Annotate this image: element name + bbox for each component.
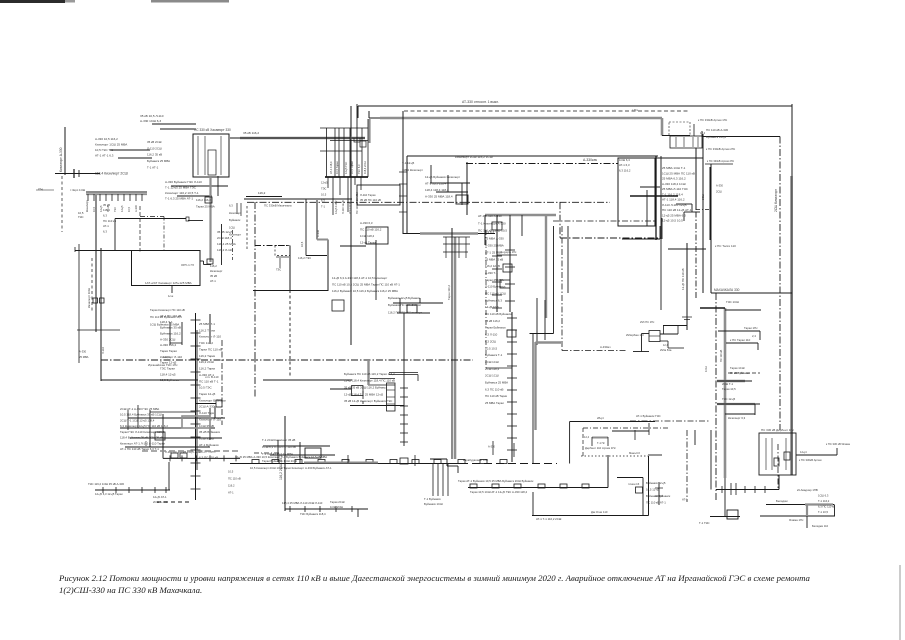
station box Zubutli (357, 185, 400, 205)
svg-text:Тарки ПС 110 кВ: Тарки ПС 110 кВ (199, 347, 222, 351)
svg-text:2,4: 2,4 (752, 334, 756, 338)
svg-text:Кизилюрт А-330: Кизилюрт А-330 (59, 147, 63, 172)
ladder box Khunzakh (387, 383, 396, 411)
wire chain H y509 (285, 508, 368, 510)
svg-text:10,5 ГЭС: 10,5 ГЭС (199, 386, 212, 390)
svg-text:т.Чирп 1СШ: т.Чирп 1СШ (70, 188, 86, 192)
svg-text:6,3 ПС 110 кВ: 6,3 ПС 110 кВ (485, 387, 503, 391)
svg-text:к ПС 330кВ Артем 2Пс: к ПС 330кВ Артем 2Пс (707, 159, 735, 163)
svg-text:ГЭС: ГЭС (113, 207, 117, 212)
wire branch H y308 (700, 307, 725, 309)
wire V x807 drop (806, 516, 808, 528)
wire gray H y431 (612, 430, 649, 432)
svg-text:10,5 Кизилюрт 2СШ 1СШ Тарки Ки: 10,5 Кизилюрт 2СШ 1СШ Тарки Кизилюрт А-3… (250, 466, 332, 470)
svg-text:А-330 118,4 1СШ: А-330 118,4 1СШ (662, 182, 686, 186)
wire corner V x662 gray (661, 118, 664, 136)
svg-text:35 кВ ПС 110 кВ: 35 кВ ПС 110 кВ (360, 198, 381, 202)
wire dash H y216 (140, 216, 164, 218)
svg-text:118,4 25 МВА: 118,4 25 МВА (217, 242, 236, 246)
wire gray overlay y504 (805, 503, 833, 505)
svg-text:25 МВА Тарки: 25 МВА Тарки (485, 401, 504, 405)
svg-text:37+j: 37+j (38, 187, 43, 191)
svg-text:ПС 110 кВ: ПС 110 кВ (719, 350, 723, 362)
svg-text:12+j5 10,5: 12+j5 10,5 (485, 305, 499, 309)
chain ticks x510 (507, 317, 517, 319)
junction small box AT (207, 259, 213, 264)
cluster Gunib wires (370, 378, 395, 380)
wire V x255 dash-dot long (254, 202, 256, 398)
wire H y403 gotsatl (196, 403, 216, 405)
comb under chain x433 (432, 464, 434, 496)
bus ticks below y192 (87, 194, 89, 201)
svg-text:1СШ 6,3 Л-110 ПС 110 кВ: 1СШ 6,3 Л-110 ПС 110 кВ (262, 445, 296, 449)
svg-text:Кизилюрт Л-110: Кизилюрт Л-110 (160, 355, 182, 359)
chain ticks x497 (492, 255, 502, 257)
svg-text:6,3 ПС 110 кВ: 6,3 ПС 110 кВ (199, 456, 218, 460)
svg-text:к ПС 330кВ Артем: к ПС 330кВ Артем (799, 458, 822, 462)
svg-text:2СШ Кизилюрт: 2СШ Кизилюрт (774, 189, 778, 212)
svg-text:Тарки Кизилюрт ПС 110 кВ: Тарки Кизилюрт ПС 110 кВ (150, 308, 185, 312)
wire H y380 left (101, 379, 198, 381)
wire gray dash H y451 (142, 450, 238, 452)
svg-text:А-330 Буйнакск ГЭС Л-110: А-330 Буйнакск ГЭС Л-110 (165, 180, 202, 184)
svg-text:Белиджи 110: Белиджи 110 (812, 524, 829, 528)
svg-text:Т-1 12+j5: Т-1 12+j5 (402, 161, 415, 165)
wire dash V x164 (163, 217, 165, 252)
svg-text:ПС 330кВ Махачкала: ПС 330кВ Махачкала (264, 204, 292, 208)
svg-text:АТ-1 Т-1 116,2 2СШ: АТ-1 Т-1 116,2 2СШ (536, 517, 562, 521)
wire trunk chain y463 (230, 463, 460, 465)
svg-text:А-330 10,5 116,2: А-330 10,5 116,2 (95, 137, 118, 141)
svg-text:АТ-1: АТ-1 (103, 224, 109, 228)
wire H y455 to Yalama (796, 454, 837, 456)
wire chain H y487 (468, 487, 608, 489)
svg-text:Изба 81а: Изба 81а (660, 348, 672, 352)
tiny box pair y298 (93, 298, 98, 303)
wire H y158 link (656, 157, 703, 159)
svg-text:12+j5 118,4 Кизилюрт 118,4 ПС: 12+j5 118,4 Кизилюрт 118,4 ПС 110 кВ (344, 379, 395, 383)
wire V x467 (466, 162, 468, 215)
wire branch y414 (725, 413, 755, 415)
wire V x608 up to box (607, 455, 609, 488)
svg-text:10,5 10,5: 10,5 10,5 (485, 346, 497, 350)
svg-text:А-330 1СШ 6,3: А-330 1СШ 6,3 (140, 119, 161, 123)
drops below bus (327, 177, 329, 188)
svg-text:А-330: А-330 (716, 184, 723, 188)
svg-text:ПС 110 кВ Буйнакск: ПС 110 кВ Буйнакск (485, 312, 512, 316)
wire gray V x807 (806, 505, 808, 517)
bus y177 GES (325, 176, 368, 178)
svg-text:35 кВ 10,5 Л-110: 35 кВ 10,5 Л-110 (140, 114, 164, 118)
bus bar y192 Khasavyurt (86, 191, 147, 193)
svg-text:АТ-1 25 МВА: АТ-1 25 МВА (485, 250, 502, 254)
svg-text:Т-1 116,2: Т-1 116,2 (818, 499, 830, 503)
svg-text:2СШ 1СШ: 2СШ 1СШ (485, 360, 499, 364)
svg-text:Буйнакск 25 МВА: Буйнакск 25 МВА (485, 381, 508, 385)
svg-text:1СШ 25 МВА ПС 110 кВ: 1СШ 25 МВА ПС 110 кВ (662, 171, 695, 175)
svg-text:АТ-1: АТ-1 (210, 279, 216, 283)
svg-text:ПС 110 кВ 116,2: ПС 110 кВ 116,2 (360, 227, 382, 231)
label artem 2ps arrow (705, 163, 733, 165)
svg-text:АТ-1 Буйнакск: АТ-1 Буйнакск (199, 443, 219, 447)
svg-text:Л-110 Л-110 12+j5: Л-110 Л-110 12+j5 (662, 203, 687, 207)
svg-text:12+j5 ПС 110 кВ: 12+j5 ПС 110 кВ (681, 268, 685, 290)
svg-text:к ПС 330кВ Артем 2Пс: к ПС 330кВ Артем 2Пс (706, 147, 736, 151)
svg-text:к ПС Тарки 110: к ПС Тарки 110 (730, 338, 751, 342)
svg-text:Тарки 12+j5: Тарки 12+j5 (199, 392, 216, 396)
small box x635 y487 (636, 487, 643, 493)
svg-text:35 кВ 35 кВ 2СШ 116,2 Буйнакск: 35 кВ 35 кВ 2СШ 116,2 Буйнакск (344, 386, 388, 390)
svg-text:118,4 2СШ: 118,4 2СШ (363, 161, 367, 174)
small box x332 y300 (332, 300, 344, 311)
svg-text:35 кВ: 35 кВ (210, 274, 217, 278)
svg-text:Т-1 Буйнакск: Т-1 Буйнакск (424, 497, 441, 501)
svg-text:Тарки АТ-1 Буйнакск 10,5 25 МВ: Тарки АТ-1 Буйнакск 10,5 25 МВА Буйнакск… (458, 479, 534, 483)
svg-text:Кизилюрт 6,3: Кизилюрт 6,3 (728, 416, 746, 420)
cluster left column x230-248 (236, 203, 238, 214)
svg-text:Буйнакск ПС 110 кВ 2СШ: Буйнакск ПС 110 кВ 2СШ (388, 303, 421, 307)
cluster Irganay gray box (182, 416, 210, 428)
wire V x662 mid (661, 218, 663, 239)
wire V x101 long (100, 248, 102, 381)
svg-text:Кизилюрт 1СШ: Кизилюрт 1СШ (87, 288, 91, 308)
wire V x407 (406, 156, 408, 234)
chain x404 lower (403, 313, 405, 446)
wire V x569 derbent (569, 422, 571, 464)
svg-text:Кизилюрт 1СШ 116,2 1СШ: Кизилюрт 1СШ 116,2 1СШ (455, 155, 493, 159)
chain node bumps y463 (252, 460, 259, 464)
svg-text:А-330 АТ-1: А-330 АТ-1 (199, 373, 214, 377)
chain V x512 lower (511, 312, 513, 462)
svg-text:Тарки 116,2: Тарки 116,2 (447, 285, 451, 300)
svg-text:12+j5 Буйнакск Кизилюрт: 12+j5 Буйнакск Кизилюрт (425, 175, 461, 179)
wire V x711 (710, 164, 712, 293)
svg-text:1СШ: 1СШ (704, 366, 708, 372)
wire jog V x560 dash-dot (559, 202, 561, 238)
wire dash-dot V x562 (561, 226, 563, 351)
wire branch H y293 (711, 292, 792, 294)
svg-text:ГЭС Буйнакск 118,4: ГЭС Буйнакск 118,4 (300, 512, 326, 516)
svg-text:6,3: 6,3 (103, 229, 107, 233)
wire H y380 right part (263, 379, 352, 381)
svg-text:118,4 Кизилюрт 2СШ: 118,4 Кизилюрт 2СШ (95, 171, 128, 175)
wire V x79 (78, 244, 80, 363)
svg-text:Кизилюрт: Кизилюрт (210, 269, 223, 273)
svg-text:ГЭС 1СШ: ГЭС 1СШ (726, 300, 739, 304)
svg-text:Буйнакск 12+j5: Буйнакск 12+j5 (706, 135, 726, 139)
svg-text:Т-1 АТ-1: Т-1 АТ-1 (147, 166, 159, 170)
svg-text:2СШ А-330: 2СШ А-330 (153, 500, 168, 504)
wire V x163 up (162, 442, 164, 458)
svg-text:Кизилюрт 1СШ 25 МВА: Кизилюрт 1СШ 25 МВА (95, 143, 127, 147)
wire trunk H y118 (369, 117, 662, 119)
svg-text:6,3 Кизилюрт 12+j5 ПС 110 кВ 1: 6,3 Кизилюрт 12+j5 ПС 110 кВ 116,2 (120, 424, 168, 428)
svg-text:10,5 Тарки: 10,5 Тарки (350, 161, 354, 174)
svg-text:116,2 2СШ: 116,2 2СШ (199, 360, 214, 364)
small box x492 y222 (492, 222, 502, 230)
svg-text:10,5 118,4 Буйнакск 35 кВ 1СШ: 10,5 118,4 Буйнакск 35 кВ 1СШ (120, 413, 162, 417)
wire trunk H y233 gray overlay (420, 232, 478, 235)
svg-text:1АТ+2АТ Хасавюрт 125+125 МВА: 1АТ+2АТ Хасавюрт 125+125 МВА (145, 281, 192, 285)
svg-text:25 МВА А-330: 25 МВА А-330 (485, 237, 504, 241)
transformer block box 1AT-2AT (132, 251, 201, 286)
wire H y135 chiryurt (662, 135, 690, 137)
cluster Artem wires (430, 182, 470, 184)
svg-text:118,4 25 МВА Л-110 2СШ Л-110: 118,4 25 МВА Л-110 2СШ Л-110 (282, 501, 323, 505)
svg-text:ПС 110 кВ А-330: ПС 110 кВ А-330 (706, 128, 728, 132)
svg-text:ПС 110 кВ: ПС 110 кВ (228, 477, 241, 481)
box inner columns (197, 136, 199, 175)
svg-text:АТ-1 Л-110 А-330: АТ-1 Л-110 А-330 (478, 214, 502, 218)
svg-text:1СШ 118,4: 1СШ 118,4 (360, 234, 375, 238)
svg-text:Буйнакск 6,3: Буйнакск 6,3 (485, 298, 502, 302)
svg-text:Кизилюрт 116,2 10,5 Т-1: Кизилюрт 116,2 10,5 Т-1 (165, 191, 199, 195)
svg-text:10,5 Буйнакск: 10,5 Буйнакск (160, 378, 180, 382)
svg-text:ПС 110 кВ 10,5 2СШ 25 МВА Тарк: ПС 110 кВ 10,5 2СШ 25 МВА Тарки ПС 110 к… (332, 283, 400, 287)
svg-text:Л-110: Л-110 (101, 347, 105, 354)
svg-text:ПС 110 кВ АТ-1: ПС 110 кВ АТ-1 (646, 500, 666, 504)
svg-text:10,5: 10,5 (144, 440, 148, 446)
svg-text:12+j5 6,3 А-330 118,4 АТ-1 10,: 12+j5 6,3 А-330 118,4 АТ-1 10,5 Кизилюрт (332, 276, 388, 280)
svg-text:Буйнакск 116,2: Буйнакск 116,2 (160, 332, 181, 336)
svg-text:25 МВА 1СШ Т-1: 25 МВА 1СШ Т-1 (662, 166, 686, 170)
svg-text:А-330 25 МВА: А-330 25 МВА (485, 244, 504, 248)
wire trunk H y238 dash-dot (560, 237, 661, 239)
svg-text:Т-1 10,5: Т-1 10,5 (818, 510, 829, 514)
junction box y458 (400, 458, 408, 464)
svg-text:116,2: 116,2 (210, 264, 217, 268)
wire V x96 bus drop (95, 194, 97, 332)
box inner verticals (675, 137, 677, 147)
svg-text:12+j5 Тарки: 12+j5 Тарки (360, 240, 376, 244)
svg-text:10,5: 10,5 (300, 241, 304, 247)
svg-text:Т-1: Т-1 (321, 205, 326, 209)
svg-text:118,4 12+j5: 118,4 12+j5 (160, 372, 176, 376)
wire V x376 stub (375, 240, 377, 300)
wire H y516 right (760, 515, 835, 517)
svg-text:12+j5: 12+j5 (120, 205, 124, 212)
svg-text:АТ-1 Буйнакск ГЭС: АТ-1 Буйнакск ГЭС (636, 414, 661, 418)
svg-text:6,3: 6,3 (103, 213, 107, 217)
svg-text:Тарки 10,5: Тарки 10,5 (722, 387, 736, 391)
svg-text:Буйнакск 25 МВА: Буйнакск 25 МВА (147, 159, 170, 163)
svg-text:12+j5 ГЭС: 12+j5 ГЭС (344, 162, 348, 174)
svg-text:ПС 110 кВ Тарки: ПС 110 кВ Тарки (485, 394, 507, 398)
svg-text:ГЭС Тарки: ГЭС Тарки (160, 367, 175, 371)
chain dash-dot V x486 (485, 230, 487, 368)
wire V x568 short (567, 226, 569, 293)
wire V x485 (484, 215, 486, 245)
wire gray V x535 (534, 342, 536, 430)
svg-text:ГЭС: ГЭС (78, 215, 84, 219)
wire chain H y458 left (163, 457, 240, 459)
wire V x317 gray drop (316, 199, 318, 240)
gray overlay on y463 (304, 462, 378, 464)
box bottom extension (648, 454, 662, 456)
crossing hatch marks (73, 169, 75, 178)
wire V x780 dash-dot long (779, 137, 781, 431)
wires below box (171, 185, 228, 187)
svg-text:12+j5 25 МВА 6,3: 12+j5 25 МВА 6,3 (662, 213, 686, 217)
svg-text:28+j4: 28+j4 (597, 416, 604, 420)
loop wire y477 (617, 477, 643, 479)
svg-text:Буйнакск: Буйнакск (229, 218, 241, 222)
wire chain H y490 right (716, 489, 779, 491)
dashed box chiryurt upper (669, 122, 690, 136)
small boxes on chains (503, 264, 512, 272)
svg-text:2СШ: 2СШ (701, 194, 705, 200)
substation box chiryurt (670, 136, 702, 148)
wire H y330 left (77, 329, 120, 331)
wire dash-dot H y350 (562, 350, 627, 352)
svg-text:Избербаш 110: Избербаш 110 (626, 333, 644, 337)
svg-text:6,3 116,2: 6,3 116,2 (619, 168, 631, 172)
svg-text:12+j5 6,3 12+j5 Тарки: 12+j5 6,3 12+j5 Тарки (95, 492, 123, 496)
svg-text:к9 Авадхар 1ПВ: к9 Авадхар 1ПВ (797, 488, 818, 492)
svg-text:Кизилюрт: Кизилюрт (229, 211, 242, 215)
wire H y255 pair (306, 255, 329, 257)
wire dash-dot V x687 lower (686, 430, 688, 502)
wire H y504 Belidzhi (766, 504, 834, 506)
svg-text:10,5: 10,5 (127, 206, 131, 212)
svg-text:Буйнакск Т-1: Буйнакск Т-1 (485, 353, 503, 357)
svg-text:6,3: 6,3 (229, 204, 233, 208)
svg-text:116,2: 116,2 (258, 191, 266, 195)
svg-text:ГЭС 116,2: ГЭС 116,2 (199, 341, 213, 345)
wire trunk H y118 gray overlay (380, 117, 662, 120)
wire dash H y209 (696, 209, 711, 211)
wire dashes y502 (157, 501, 190, 503)
wire gray H y342 (536, 341, 562, 343)
svg-text:Т-1 118,4 116,2 25 МВА: Т-1 118,4 116,2 25 МВА (262, 452, 293, 456)
svg-text:6,3: 6,3 (321, 199, 325, 203)
svg-text:118,4: 118,4 (103, 208, 110, 212)
wire dash-dot H y221 (553, 220, 656, 222)
svg-text:12,4: 12,4 (584, 435, 590, 439)
svg-text:АТ-1 АТ-1 6,3: АТ-1 АТ-1 6,3 (95, 154, 114, 158)
chain ticks left y490 (102, 487, 104, 493)
svg-text:Кизилюрт Буйнакск: Кизилюрт Буйнакск (199, 398, 227, 402)
wire V x455 gray long (454, 237, 457, 459)
wire rows in box (640, 186, 660, 188)
wire V x290 lower (289, 290, 291, 378)
wire branch H y343 (726, 342, 758, 344)
wire H y196 right seg (246, 196, 282, 198)
wire V x695 lower (694, 430, 696, 445)
stubs above y487 chain (492, 441, 494, 455)
svg-text:35 кВ 12+j5 Кизилюрт Буйнакск: 35 кВ 12+j5 Кизилюрт Буйнакск ГЭС (344, 399, 392, 403)
svg-text:Мам+СЗ: Мам+СЗ (629, 451, 640, 455)
svg-text:АТ-1: АТ-1 (682, 498, 688, 502)
svg-text:А-330 116,2: А-330 116,2 (160, 343, 176, 347)
svg-text:ПС 330 кВ Дербент 1Пс: ПС 330 кВ Дербент 1Пс (761, 428, 795, 432)
svg-text:116,2: 116,2 (228, 484, 235, 488)
svg-text:Тарки Тарки: Тарки Тарки (160, 349, 177, 353)
wire V x351 long (350, 106, 352, 345)
wire V x140 dash branch (139, 206, 141, 252)
wire branch dash y373 (728, 372, 760, 374)
chain ticks x193 (191, 319, 201, 321)
wire V x792 long right trunk (791, 104, 793, 176)
wire trunk H y106 (330 kV tie) (358, 105, 792, 107)
svg-text:Дербент 110 Артем 1Пс: Дербент 110 Артем 1Пс (585, 446, 616, 450)
svg-text:Тарки Буйнакск: Тарки Буйнакск (485, 326, 506, 330)
small box x368 y227 (366, 227, 388, 244)
svg-text:2СШ: 2СШ (716, 190, 722, 194)
wire trunk gray H y215 (485, 214, 556, 217)
svg-text:116,2 Л-110: 116,2 Л-110 (217, 248, 233, 252)
wire V x290 (289, 246, 291, 291)
small box bottom cluster (727, 510, 738, 519)
inner box right (208, 150, 216, 175)
svg-text:А-330 6,3: А-330 6,3 (360, 221, 373, 225)
svg-text:А-330 Т-1: А-330 Т-1 (485, 271, 498, 275)
svg-text:35 кВ 116,2: 35 кВ 116,2 (243, 131, 259, 135)
svg-text:25 МВА: 25 МВА (79, 355, 89, 359)
cluster steps boxes A (649, 331, 660, 342)
chain V x497 (496, 215, 498, 312)
svg-text:116,2 Буйнакск 10,5 116,2 Буйн: 116,2 Буйнакск 10,5 116,2 Буйнакск 116,2… (332, 289, 398, 293)
bus bar y194 gray (86, 193, 147, 195)
box inner verticals derbent (765, 438, 767, 470)
wire H y174 crossing (55, 173, 100, 175)
wire gray H y138 from box (240, 137, 365, 140)
cluster Khunzakh wires (393, 302, 443, 304)
svg-text:116,2 Тарки: 116,2 Тарки (199, 367, 215, 371)
svg-text:2СШ Т-1: 2СШ Т-1 (722, 382, 734, 386)
svg-text:116,2 Тарки: 116,2 Тарки (199, 328, 215, 332)
svg-text:116,2 ПС 110 кВ Кизилюрт: 116,2 ПС 110 кВ Кизилюрт (388, 310, 423, 314)
wire V x711 lower (710, 430, 712, 490)
svg-text:1СШ 2СШ: 1СШ 2СШ (330, 505, 343, 509)
svg-text:АТ-1 10,5 118,4: АТ-1 10,5 118,4 (425, 182, 446, 186)
svg-text:118,4 Кизилюрт: 118,4 Кизилюрт (402, 168, 423, 172)
svg-text:ГЭС: ГЭС (321, 187, 326, 191)
wire V x197 chain twin (196, 330, 198, 470)
svg-text:ПС 110 кВ: ПС 110 кВ (103, 219, 116, 223)
svg-text:2СШ 118,4: 2СШ 118,4 (485, 367, 500, 371)
svg-text:12+j5 АТ-1: 12+j5 АТ-1 (153, 495, 167, 499)
svg-text:к ПС 330кВ Артем 1Пс: к ПС 330кВ Артем 1Пс (698, 118, 728, 122)
svg-text:1СШ Буйнакск 25 МВА: 1СШ Буйнакск 25 МВА (150, 322, 179, 326)
bus V x661 (660, 156, 662, 310)
svg-text:Тарки 10,5 1СШ АТ-1 12+j5 ГЭС: Тарки 10,5 1СШ АТ-1 12+j5 ГЭС А-330 118,… (470, 490, 528, 494)
svg-text:А-330: А-330 (316, 229, 320, 237)
wire dash-dot y453 levashi (254, 452, 280, 454)
cluster Irganay extra wires (127, 410, 129, 430)
svg-text:1СШ 6,3: 1СШ 6,3 (619, 158, 630, 162)
svg-text:12,4: 12,4 (700, 131, 706, 135)
wire trunk H y111 dashed (404, 110, 690, 112)
dash-dot V x222 (221, 340, 223, 425)
svg-text:116,2 Тарки: 116,2 Тарки (199, 354, 215, 358)
wire trunk H y233 (403, 233, 495, 235)
svg-text:12,4: 12,4 (663, 344, 668, 347)
wire V x537 (536, 298, 538, 345)
small box x360 y141 (360, 141, 366, 147)
svg-text:1СШ 6,3: 1СШ 6,3 (818, 494, 829, 498)
svg-text:Белиджи: Белиджи (776, 499, 788, 503)
svg-text:Кизилюрт: Кизилюрт (85, 200, 89, 212)
wire loop bottom (532, 515, 649, 517)
wire V x725 gray long (724, 308, 727, 478)
svg-text:ГЭС 12+j5: ГЭС 12+j5 (722, 397, 736, 401)
wire dash-dot H y421 (630, 420, 710, 422)
svg-text:2СШ 118,4: 2СШ 118,4 (217, 236, 232, 240)
svg-text:к ПС Талги 110: к ПС Талги 110 (715, 244, 736, 248)
wire dash V x583 (582, 428, 584, 457)
wire notch right of AT box (200, 260, 204, 262)
